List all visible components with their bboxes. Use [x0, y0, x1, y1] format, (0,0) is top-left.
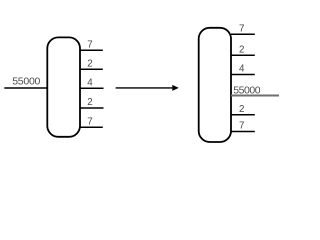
wire: right pin 3 [231, 74, 255, 76]
wire: right pin 6 [231, 131, 255, 133]
wire: left pin 4 [80, 107, 104, 109]
svg-text:7: 7 [87, 39, 92, 50]
arrow between lists [116, 85, 179, 91]
svg-text:2: 2 [239, 104, 244, 115]
svg-text:55000: 55000 [233, 85, 261, 97]
wire: left pin 2 [80, 68, 103, 70]
wire: left pin 3 [80, 87, 104, 89]
svg-text:55000: 55000 [12, 76, 40, 88]
wire: left pin 1 [80, 49, 103, 51]
svg-text:2: 2 [239, 44, 244, 55]
svg-text:7: 7 [87, 116, 92, 127]
wire: input 55000 line [4, 87, 48, 89]
svg-text:4: 4 [87, 77, 93, 88]
left list body [47, 37, 80, 136]
svg-text:7: 7 [239, 121, 244, 132]
right list body [199, 28, 231, 142]
svg-text:4: 4 [239, 64, 245, 75]
wire: inserted 55000 line (gray) [231, 95, 279, 97]
wire: right pin 2 [231, 54, 255, 56]
wire: left pin 5 [80, 126, 103, 128]
svg-text:2: 2 [87, 59, 92, 70]
wire: right pin 5 [231, 114, 255, 116]
wire: right pin 1 [231, 33, 255, 35]
svg-text:7: 7 [239, 24, 244, 35]
svg-text:2: 2 [87, 97, 92, 108]
